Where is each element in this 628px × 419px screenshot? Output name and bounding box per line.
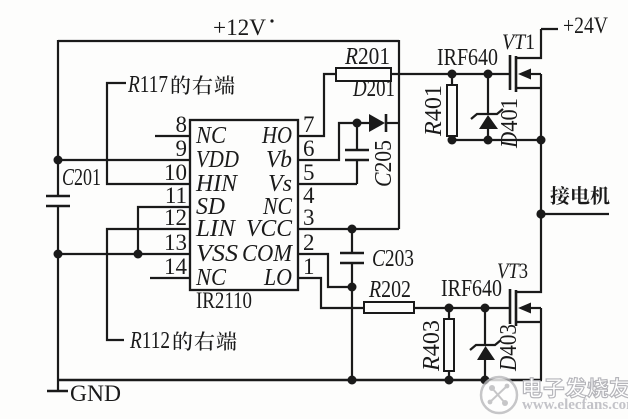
pin label NC pin 8 (195, 123, 227, 149)
transistor Q3 VT3 MOSFET (510, 214, 541, 326)
wire pin1 LO to R202 (298, 278, 364, 308)
pin number 2 (303, 230, 315, 255)
pin number 1 (303, 254, 315, 279)
label R117 chinese (172, 75, 235, 94)
wire motor stub (541, 213, 609, 215)
svg-text:VDD: VDD (196, 147, 239, 173)
label C201 (62, 165, 101, 191)
ground GND symbol (47, 390, 68, 393)
svg-text:2: 2 (303, 230, 315, 255)
wire VT1 source down to motor node (540, 74, 542, 214)
pin label NC pin 14 (195, 265, 227, 291)
svg-text:www.elecfans.com: www.elecfans.com (522, 397, 628, 413)
junction motor node (536, 209, 545, 218)
junction COM / C203 (348, 283, 357, 292)
pin number 5 (303, 160, 315, 185)
pin number 6 (303, 136, 315, 161)
label IRF640 upper (437, 45, 498, 71)
watermark url (522, 397, 628, 413)
wire pin3 VCC line (298, 228, 399, 230)
svg-text:13: 13 (164, 230, 187, 255)
svg-text:12: 12 (164, 205, 187, 230)
pin label VCC pin 3 (246, 216, 293, 242)
node +24V stub (541, 28, 558, 30)
svg-text:IRF640: IRF640 (441, 276, 502, 302)
svg-text:+12V: +12V (213, 15, 266, 40)
pin number 12 (164, 205, 187, 230)
pin number 7 (303, 112, 315, 137)
svg-text:C201: C201 (62, 165, 101, 191)
resistor R403 (444, 308, 454, 380)
svg-text:R112: R112 (129, 328, 170, 354)
pin label LO pin 1 (263, 265, 292, 291)
svg-text:HO: HO (261, 123, 292, 149)
svg-text:6: 6 (303, 136, 315, 161)
label GND (70, 381, 121, 406)
pin number 3 (303, 205, 315, 230)
junction ground rail C203 (348, 376, 357, 385)
svg-text:C205: C205 (371, 140, 397, 187)
svg-text:10: 10 (164, 160, 187, 185)
svg-text:R201: R201 (344, 44, 390, 70)
svg-text:R401: R401 (421, 85, 447, 137)
svg-text:R403: R403 (419, 320, 445, 372)
junction rail D403 (481, 376, 490, 385)
wire pin5 Vs to C205 (298, 183, 357, 185)
label motor chinese (550, 186, 609, 205)
junction D401 top (484, 70, 493, 79)
label +24V (563, 13, 608, 38)
svg-text:LIN: LIN (195, 216, 237, 242)
junction VCC / C203 (348, 225, 357, 234)
wire pin10 HIN to R117 bracket (107, 83, 190, 184)
wire pin12 LIN to R112 bracket (107, 229, 190, 340)
label R112 chinese (174, 331, 237, 350)
label C205 rotated (371, 140, 397, 187)
svg-text:D401: D401 (497, 98, 523, 149)
junction R403 top (445, 304, 454, 313)
svg-text:LO: LO (263, 265, 292, 291)
junction SD-VSS (134, 250, 143, 259)
diode D201 (369, 114, 399, 132)
pin label Vs pin 5 (268, 171, 292, 197)
pin label VSS pin 13 (196, 241, 238, 267)
resistor R401 (447, 74, 457, 140)
label D401 rotated (497, 98, 523, 149)
wire left vertical +12V to C201 (57, 40, 59, 196)
svg-text:D403: D403 (496, 324, 522, 372)
label C203 (372, 246, 414, 272)
svg-text:R117: R117 (127, 72, 168, 98)
capacitor C201 (46, 196, 70, 206)
svg-text:R202: R202 (368, 277, 411, 303)
junction VSS rail (54, 250, 63, 259)
svg-text:1: 1 (303, 254, 315, 279)
pin label NC pin 4 (262, 194, 293, 220)
svg-text:VCC: VCC (246, 216, 293, 242)
zener diode D403 (470, 308, 501, 380)
label VT1 (502, 29, 535, 54)
label IRF640 lower (441, 276, 502, 302)
pin number 4 (303, 183, 315, 208)
label R403 rotated (419, 320, 445, 372)
wire pin11 SD down to VSS (138, 207, 190, 254)
svg-text:9: 9 (176, 136, 188, 161)
label R201 (344, 44, 390, 70)
op-amp U1 IC IR2110 body (190, 120, 298, 290)
junction rail R403 (445, 376, 454, 385)
svg-text:14: 14 (164, 254, 188, 279)
wire pin2 COM down (298, 254, 352, 287)
pin label VDD pin 9 (196, 147, 239, 173)
svg-text:NC: NC (195, 265, 227, 291)
label VT3 (497, 258, 528, 283)
wire +12V right vertical (398, 40, 400, 229)
label R112 right-end (129, 328, 170, 354)
pin number 10 (164, 160, 187, 185)
wire pin13 VSS to left vertical (58, 253, 190, 255)
wire COM to ground rail (351, 287, 353, 380)
pin number 8 (176, 112, 188, 137)
svg-text:5: 5 (303, 160, 315, 185)
svg-text:3: 3 (303, 205, 315, 230)
wire pin9 VDD to +12V vertical (58, 159, 190, 161)
zener diode D401 (471, 74, 503, 140)
capacitor C203 (340, 229, 364, 287)
svg-text:NC: NC (195, 123, 227, 149)
pin label HIN pin 10 (195, 171, 239, 197)
wire R401/D401 bottom tie (452, 139, 541, 141)
wire pin8 NC stub (155, 135, 190, 137)
watermark text elecfans chinese (523, 378, 628, 398)
label R401 rotated (421, 85, 447, 137)
transistor Q1 VT1 MOSFET (510, 29, 541, 92)
svg-text:+24V: +24V (563, 13, 608, 38)
capacitor C205 (345, 123, 369, 184)
pin label COM pin 2 (242, 241, 294, 267)
label D403 rotated (496, 324, 522, 372)
svg-text:C203: C203 (372, 246, 414, 272)
wire pin14 NC stub (150, 277, 190, 279)
resistor R201 (336, 68, 391, 81)
svg-text:8: 8 (176, 112, 188, 137)
svg-text:Vb: Vb (266, 147, 292, 173)
svg-text:GND: GND (70, 381, 121, 406)
svg-text:IR2110: IR2110 (196, 288, 252, 313)
svg-text:VT1: VT1 (502, 29, 535, 54)
wire left vertical C201 to GND (57, 206, 59, 391)
pin label SD pin 11 (196, 194, 225, 220)
wire pin6 Vb up to D201 anode (298, 123, 369, 160)
svg-text:IRF640: IRF640 (437, 45, 498, 71)
junction tie D401 (484, 136, 493, 145)
resistor R202 (364, 302, 414, 313)
wire VT1 gate line (391, 73, 510, 75)
pin label LIN pin 12 (195, 216, 237, 242)
junction D403 top (481, 304, 490, 313)
junction tie source vertical (537, 136, 546, 145)
pin number 9 (176, 136, 188, 161)
svg-text:COM: COM (242, 241, 294, 267)
label R117 right-end (127, 72, 168, 98)
junction tie R401 (448, 136, 457, 145)
wire +12V rail top (58, 40, 399, 42)
watermark logo circle (481, 377, 517, 413)
wire pin7 HO up to R201 (298, 74, 336, 136)
pin number 13 (164, 230, 187, 255)
pin number 11 (165, 183, 187, 208)
svg-text:7: 7 (303, 112, 315, 137)
label R202 (368, 277, 411, 303)
pin number 14 (164, 254, 188, 279)
wire ground rail (58, 379, 542, 382)
label D201 (352, 76, 395, 102)
junction VDD rail (54, 156, 63, 165)
pin label Vb pin 6 (266, 147, 292, 173)
label IR2110 (196, 288, 252, 313)
wire VT3 source to ground rail (540, 308, 542, 380)
pin label HO pin 7 (261, 123, 292, 149)
wire VT3 gate line (414, 307, 510, 309)
junction D201 anode / C205 (353, 119, 362, 128)
node +12V label (213, 15, 274, 40)
svg-text:D201: D201 (352, 76, 395, 102)
junction R401 top (448, 70, 457, 79)
svg-text:VT3: VT3 (497, 258, 528, 283)
svg-text:VSS: VSS (196, 241, 238, 267)
